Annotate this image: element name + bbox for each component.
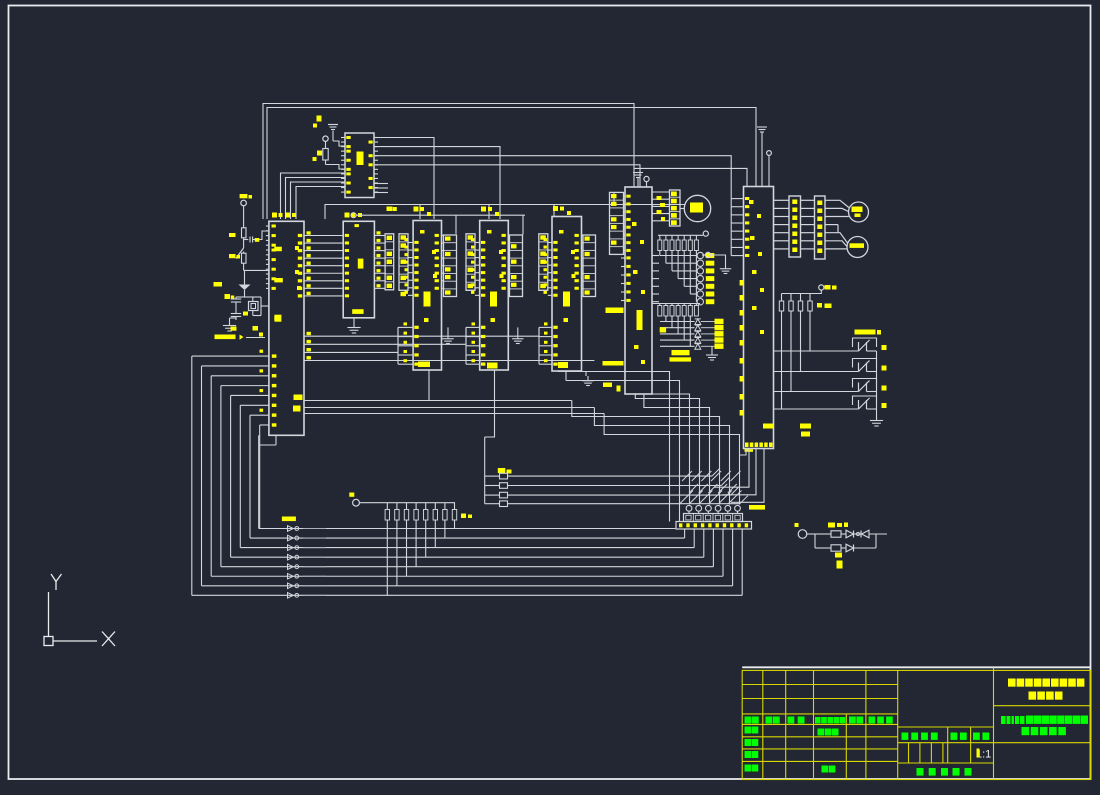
labels sense — [498, 468, 506, 473]
labels U7 right rungs — [657, 196, 662, 200]
U2 right wires upper mid — [304, 327, 539, 336]
IC U8 — [744, 187, 774, 449]
IC U1 — [345, 133, 374, 198]
diode pair row 2 — [288, 535, 294, 541]
wire U1 to U3 clock — [374, 138, 434, 220]
relay K3 — [774, 391, 859, 393]
wire bus to U8 top — [634, 168, 747, 186]
U5 bottom label — [487, 363, 498, 369]
diode pair row 7 — [288, 583, 294, 589]
wire staircase S3 — [635, 394, 699, 505]
IC U2 CPU — [269, 221, 304, 435]
diode pair row 8 — [288, 593, 294, 599]
U8 right labels — [800, 424, 811, 429]
pin header J4 left of U5 — [466, 234, 475, 290]
U4 bottom label — [418, 362, 430, 368]
IC U4 — [413, 221, 441, 371]
U4 right pins — [442, 235, 444, 237]
resistor R4 — [779, 301, 783, 311]
terminal strip XT1 — [686, 505, 692, 511]
wires U8 to drivers — [774, 199, 790, 201]
wire top bus A — [263, 104, 634, 220]
diode pair row 1 — [288, 526, 294, 532]
ground G4 right of U4 — [447, 327, 449, 334]
U8 left lower labels — [740, 280, 744, 286]
wire U5 bottom drop — [485, 370, 495, 437]
labels spindle — [828, 523, 835, 528]
pin header J5 right of U5 — [510, 235, 523, 297]
cell approve — [822, 766, 829, 773]
wire U1 to U8 rail — [374, 156, 731, 199]
crystal Y1 — [249, 302, 259, 311]
resistor R10 — [485, 494, 500, 496]
ground G2 — [229, 320, 231, 326]
title text drawing name line2 — [1022, 727, 1030, 735]
bus row 1 — [259, 528, 675, 530]
node circle at R1 top — [323, 136, 328, 141]
wire U1 to U2 port — [281, 173, 346, 219]
pin header J1 — [385, 234, 394, 290]
U7 left outer labels — [606, 308, 624, 314]
wire — [243, 263, 245, 270]
bus row 8 — [192, 594, 742, 596]
bus row 7 — [202, 585, 733, 587]
diode pair row 5 — [288, 564, 294, 570]
U4 pins left — [408, 242, 413, 244]
U2 EA labels — [294, 395, 303, 401]
wires to M2 — [825, 233, 848, 243]
relay K2 — [774, 371, 859, 373]
node VCC circle — [241, 200, 247, 206]
bus row 3 — [240, 547, 694, 549]
title text dept — [1029, 692, 1037, 700]
title text school name — [1008, 679, 1016, 687]
diode pair row 4 — [288, 554, 294, 560]
U6 interior — [563, 292, 570, 307]
transistor Q1 driver — [684, 195, 710, 221]
diode D7 reverse — [854, 533, 861, 535]
wires to M1 — [825, 200, 849, 207]
motor M2 — [847, 237, 868, 258]
resistor network RN2 — [652, 303, 700, 305]
label XT1 — [749, 505, 765, 510]
node circle RN1 — [703, 231, 708, 236]
pin header J6 left of U6 — [539, 234, 548, 290]
motor M1 — [849, 202, 869, 222]
sheet numbering — [917, 768, 924, 776]
bus drops — [419, 205, 421, 220]
U2 left port pins to bus risers — [192, 355, 269, 357]
UCS axis icon — [44, 574, 115, 646]
cell standardization — [818, 729, 825, 736]
wire top bus B — [267, 108, 756, 220]
wire staircase S5 — [572, 401, 720, 505]
resistor R3 — [242, 253, 247, 263]
wire staircase S0 — [558, 372, 670, 522]
wire staircase S1 — [566, 381, 680, 522]
bus row 2 — [250, 537, 685, 539]
row label craft — [745, 765, 752, 772]
row label check — [745, 751, 752, 758]
IC U5 — [480, 221, 509, 371]
wires U8 bottom to crossing — [714, 449, 749, 487]
pin header J7 right of U6 — [583, 235, 596, 297]
bus row 5 — [221, 566, 714, 568]
pin header J8 left of U7 — [610, 192, 624, 254]
U8 left rail and pins — [730, 199, 732, 256]
U5 interior — [490, 292, 497, 307]
resistor R7 — [808, 301, 812, 311]
wire reset to U2 — [246, 337, 265, 339]
crystal Y1 circuit — [236, 296, 252, 298]
diode array D1-D5 — [660, 321, 695, 323]
node circle aux — [705, 252, 710, 257]
label RESET — [215, 335, 236, 340]
wire control bus — [325, 205, 685, 220]
U2 interior labels — [274, 247, 282, 252]
node circle on bus — [351, 213, 356, 218]
U8 bottom pin labels — [745, 443, 749, 448]
U2 right wires lower — [304, 400, 572, 402]
LED indicator column — [660, 255, 697, 257]
capacitor C1 — [243, 238, 245, 242]
resistor R8 — [485, 475, 500, 477]
U2 top labels — [272, 213, 277, 218]
pin header J3 right of U4 — [444, 235, 457, 297]
pin header J2 left of U4 — [399, 234, 408, 290]
node circle P1 — [353, 499, 360, 506]
wire U4 bottom drop — [428, 370, 430, 401]
resistor R12 — [815, 533, 831, 535]
ground above U8 — [757, 126, 767, 128]
relay common rail — [876, 351, 878, 415]
title block outer top white line — [742, 666, 1090, 668]
label U1 left — [317, 116, 322, 122]
terminal base plate — [676, 522, 752, 530]
IC U7 — [625, 187, 652, 394]
node circle above U8 — [767, 151, 772, 156]
ground G9 — [876, 415, 878, 421]
wire U6 bottom drops — [557, 370, 559, 373]
ground G1 filled — [239, 285, 251, 291]
switch S1 — [243, 242, 245, 249]
U6 lower ladder — [538, 327, 540, 364]
U5 right pins — [508, 235, 509, 237]
resistor R1 at U1 input — [323, 149, 328, 161]
wire staircase S6 — [594, 408, 729, 505]
U7 pins left — [624, 195, 626, 197]
wire — [243, 206, 245, 228]
U6 pins left — [548, 242, 552, 244]
relay K4 — [774, 408, 859, 410]
U8 interior labels — [749, 200, 754, 204]
ground G7 — [725, 264, 727, 269]
wires resistors to relay rows — [781, 311, 783, 409]
node circle above U7 — [644, 176, 649, 181]
labels crystal — [243, 312, 248, 316]
U7 interior labels — [637, 310, 643, 330]
ground above U7 — [637, 182, 639, 187]
wire U1 stubs right — [374, 183, 388, 185]
diode D6 — [841, 533, 846, 535]
resistor R2 — [242, 228, 247, 238]
labels left cluster — [229, 233, 236, 237]
row label design — [745, 727, 752, 734]
resistor R11 — [485, 503, 500, 505]
row label draw — [745, 739, 752, 746]
resistor R5 — [789, 301, 793, 311]
bus row 4 — [231, 556, 704, 558]
wire rail sense — [484, 437, 486, 504]
resistor R13 — [815, 547, 831, 549]
weight label — [951, 733, 958, 740]
U6 right pins — [582, 235, 584, 237]
resistor R6 — [798, 301, 802, 311]
U7 right pins — [652, 191, 670, 193]
bus row 6 — [211, 575, 723, 577]
node circle K pullup — [819, 285, 824, 290]
node circle spindle — [798, 530, 807, 539]
ground G8 — [711, 346, 713, 350]
header row labels — [745, 717, 752, 724]
labels pullup — [825, 285, 831, 290]
connector block right of U7 — [670, 190, 681, 226]
IC U6 — [552, 217, 582, 372]
ground G6 below U6 — [585, 371, 587, 376]
stage mark label — [902, 733, 909, 740]
wire U2 bottom — [258, 435, 260, 528]
U3 right pins to header — [374, 235, 385, 237]
ground G3 below U3 — [353, 318, 355, 322]
diode D8 — [841, 547, 846, 549]
resistor R9 — [485, 485, 500, 487]
title text drawing name line1 — [1001, 716, 1006, 724]
relay K1 — [774, 350, 859, 352]
U4 interior — [424, 292, 431, 307]
U6 bottom labels — [558, 362, 568, 368]
resistor network RN1 — [658, 234, 703, 236]
IC U3 — [343, 221, 374, 317]
labels near U7 bottom — [672, 350, 690, 355]
U4 lower ladder — [397, 327, 399, 364]
bus crossover diagonals — [682, 471, 692, 481]
diode pair row 6 — [288, 574, 294, 580]
wire staircase S2 — [627, 394, 690, 505]
U2 left pins upper — [266, 225, 269, 227]
label relays — [855, 330, 876, 335]
wire U1 to U4 — [374, 147, 500, 219]
wire staircase S4 — [644, 394, 710, 505]
U5 pins left — [475, 242, 480, 244]
U2 right ladder to U3 — [304, 235, 343, 237]
ground above U1 — [332, 131, 334, 142]
driver block A — [789, 196, 801, 257]
U5 lower ladder — [465, 327, 467, 364]
driver block B — [815, 196, 826, 259]
title block grid — [742, 670, 1090, 779]
bus row labels — [282, 517, 296, 522]
wire staircase S7 — [604, 414, 739, 505]
RN2 to diode grid — [665, 316, 667, 322]
diode pair row 3 — [288, 545, 294, 551]
scale label — [973, 733, 980, 740]
address bus left risers — [191, 356, 193, 595]
ground G5 right of U5 — [517, 327, 519, 334]
U3 left inner labels — [345, 234, 349, 237]
pull-up resistor array RP1 — [386, 503, 388, 510]
wire U1 to U7 — [374, 165, 640, 187]
